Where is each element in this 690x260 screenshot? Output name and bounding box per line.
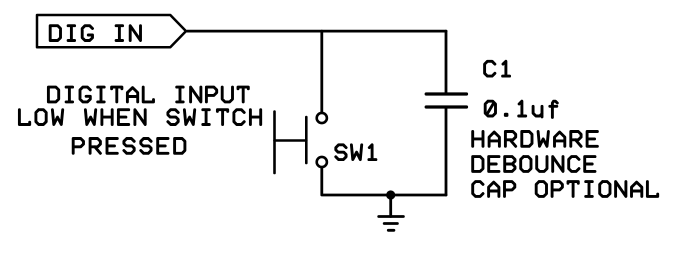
ground symbol [379,195,404,230]
wire from top rail down to switch SW1 [320,31,323,112]
label C1 [485,61,510,76]
note text line 1 DIGITAL INPUT [48,87,248,102]
port flag DIG IN [37,15,186,47]
note text line 2 LOW WHEN SWITCH [19,110,260,125]
note text HARDWARE [473,132,598,147]
wire from SW1 bottom to bottom rail [322,168,446,195]
value 0.1uf [485,101,557,117]
note text line 3 PRESSED [73,139,185,154]
wire top horizontal from flag to capacitor [187,30,446,33]
switch SW1 pushbutton [275,112,327,174]
junction node on bottom rail [386,190,395,199]
note text DEBOUNCE [473,157,595,172]
wire from top rail down to capacitor C1 [445,31,448,92]
note text CAP OPTIONAL [473,182,658,197]
capacitor C1 plates [426,94,466,107]
label SW1 [336,145,376,160]
label DIG IN [50,26,140,41]
wire from capacitor C1 bottom to bottom rail [445,109,448,196]
